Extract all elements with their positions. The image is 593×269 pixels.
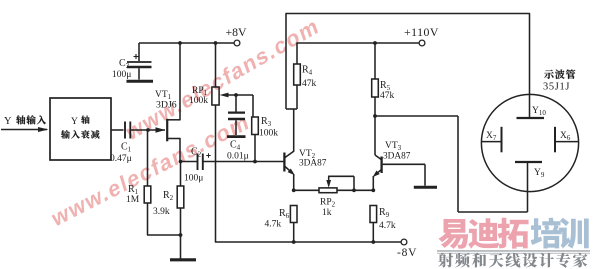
svg-text:100μ: 100μ <box>184 174 203 184</box>
svg-text:1k: 1k <box>322 208 332 218</box>
svg-text:47k: 47k <box>302 79 317 89</box>
svg-text:-8V: -8V <box>397 247 417 259</box>
svg-text:3DA87: 3DA87 <box>299 159 327 169</box>
svg-text:100k: 100k <box>189 96 208 106</box>
svg-text:3DJ6: 3DJ6 <box>156 100 177 111</box>
svg-text:Y: Y <box>71 117 78 127</box>
svg-text:1M: 1M <box>126 195 140 205</box>
svg-text:+8V: +8V <box>226 25 248 39</box>
svg-text:3DA87: 3DA87 <box>383 152 411 162</box>
svg-text:0.01μ: 0.01μ <box>227 152 249 162</box>
svg-text:+110V: +110V <box>404 25 439 39</box>
svg-text:Y: Y <box>4 116 12 127</box>
svg-text:100k: 100k <box>259 129 278 139</box>
svg-text:4.7k: 4.7k <box>265 220 282 230</box>
svg-text:4.7k: 4.7k <box>379 221 396 231</box>
svg-text:35J1J: 35J1J <box>543 82 570 93</box>
svg-text:0.47μ: 0.47μ <box>110 154 132 164</box>
svg-text:3.9k: 3.9k <box>153 207 170 217</box>
svg-text:100μ: 100μ <box>112 70 131 80</box>
svg-text:47k: 47k <box>380 91 395 101</box>
